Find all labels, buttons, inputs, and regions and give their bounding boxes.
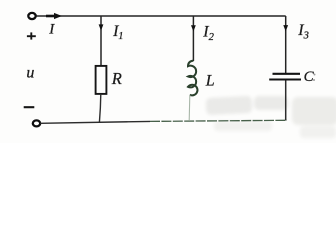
svg-text:I: I bbox=[48, 21, 55, 37]
svg-text:L: L bbox=[205, 73, 215, 90]
svg-text:I3: I3 bbox=[297, 22, 309, 42]
svg-text:C: C bbox=[304, 69, 315, 85]
svg-text:I2: I2 bbox=[202, 24, 214, 44]
svg-text:R: R bbox=[111, 69, 122, 88]
svg-text:I1: I1 bbox=[112, 23, 123, 42]
svg-text:u: u bbox=[26, 65, 34, 82]
